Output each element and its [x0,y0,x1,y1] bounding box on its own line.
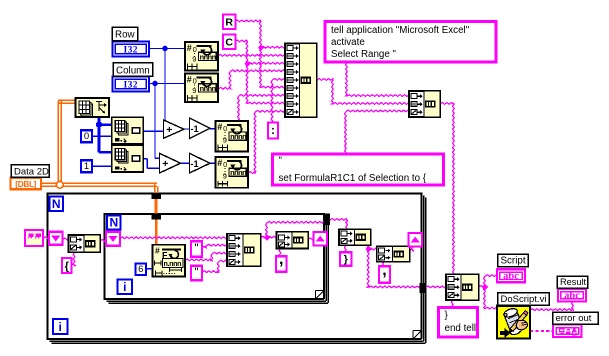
svg-text:i: i [59,320,62,334]
svg-text:,: , [279,251,283,268]
svg-text:Row: Row [115,30,136,41]
svg-text:I32: I32 [124,80,138,90]
svg-text:": " [279,156,283,167]
svg-text:{: { [65,261,70,273]
svg-text:N: N [52,197,61,211]
svg-text:9: 9 [223,172,227,181]
svg-text:9: 9 [223,135,227,144]
svg-text:C: C [225,37,233,49]
svg-text:#: # [217,122,222,132]
svg-text:-1: -1 [191,124,199,134]
svg-text:Column: Column [116,65,150,76]
svg-text:1: 1 [84,161,89,172]
svg-text:Select Range ": Select Range " [331,49,397,60]
svg-text:activate: activate [331,37,365,48]
svg-text:+: + [166,124,172,136]
svg-text:6: 6 [138,264,143,275]
svg-text:9: 9 [192,86,196,95]
svg-text:Script: Script [501,256,526,267]
svg-text:set FormulaR1C1 of Selection t: set FormulaR1C1 of Selection to { [279,173,427,184]
svg-text:+: + [162,158,168,170]
svg-text:i: i [123,280,126,294]
svg-text:0: 0 [223,124,227,133]
svg-text:I32: I32 [124,45,138,55]
svg-text:9: 9 [192,54,196,63]
svg-text:0: 0 [223,160,227,169]
svg-text:nnnn: nnnn [200,84,217,93]
svg-text:,: , [382,262,386,279]
svg-text:n.nnn: n.nnn [164,259,182,268]
svg-text:#: # [217,158,222,168]
svg-text:0: 0 [193,45,197,54]
svg-text:0: 0 [84,131,89,142]
svg-text:#: # [187,43,192,53]
svg-text:Data 2D: Data 2D [14,166,49,177]
svg-text:}: } [344,253,348,265]
svg-text:abc: abc [564,290,580,301]
svg-text:DoScript.vi: DoScript.vi [501,294,547,305]
svg-text:error out: error out [556,313,592,324]
svg-text:Result: Result [560,277,586,287]
svg-text:#: # [187,75,192,85]
svg-text:": " [194,265,198,279]
svg-text:": " [194,241,198,255]
svg-text:nnnn: nnnn [200,52,217,61]
svg-text:#: # [155,245,160,255]
svg-text:end tell: end tell [445,323,477,334]
svg-text:0: 0 [193,77,197,86]
svg-text:-1: -1 [191,159,199,169]
svg-text:N: N [109,215,118,229]
svg-text:F: F [162,250,168,260]
svg-text:tell application "Microsoft Ex: tell application "Microsoft Excel" [331,25,470,36]
svg-text:[DBL]: [DBL] [15,180,36,189]
svg-text::: : [271,123,275,137]
svg-text:R: R [225,17,233,29]
svg-text:abc: abc [503,271,519,282]
